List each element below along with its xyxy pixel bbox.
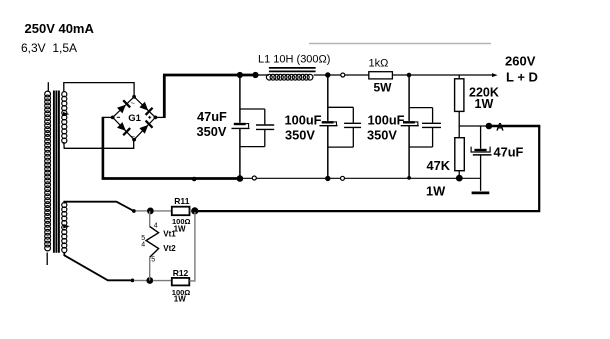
resistor R11 (154, 210, 172, 212)
wire primary top lead (47, 82, 49, 92)
wire bottom bus thick segment (102, 177, 240, 180)
svg-text:100uF: 100uF (368, 113, 405, 128)
stray junction dot (192, 177, 197, 182)
transformer primary winding (45, 91, 51, 251)
svg-text:5W: 5W (374, 81, 393, 95)
wire HV secondary top to bridge AC top (64, 83, 134, 97)
node A (486, 123, 493, 130)
svg-text:L + D: L + D (506, 69, 538, 84)
svg-text:4: 4 (141, 242, 145, 249)
svg-text:~: ~ (131, 132, 136, 141)
wire right vertical of feedback loop (195, 126, 539, 211)
resistor 1k (369, 72, 393, 79)
svg-text:A: A (496, 122, 504, 134)
transformer core (54, 91, 59, 253)
wire heater bottom lead (64, 252, 130, 280)
svg-text:47K: 47K (427, 158, 451, 173)
wire R1 right to output arrow (392, 74, 493, 76)
node heater bottom junction (146, 277, 153, 284)
wire node A horizontal (459, 125, 490, 127)
wire bridge plus riser to top bus (155, 116, 164, 118)
wire primary bottom lead (46, 253, 48, 266)
svg-text:Vt2: Vt2 (163, 244, 176, 253)
wire L1 left stub (257, 74, 270, 76)
wire zigzag top stub (149, 211, 151, 227)
connector circle bottom bus 2 (341, 176, 345, 180)
svg-text:R12: R12 (173, 268, 189, 278)
connector circle bottom bus 1 (252, 176, 256, 180)
node heater bottom connector dot (131, 279, 135, 283)
svg-text:350V: 350V (197, 124, 227, 139)
svg-text:L1 10H (300Ω): L1 10H (300Ω) (258, 54, 330, 66)
node C1 top junction (237, 72, 243, 78)
HV secondary tap arrow (63, 112, 70, 116)
wire L1 right to C2 (314, 74, 341, 76)
node C2 top junction (325, 72, 330, 77)
node R11 right junction (191, 207, 198, 214)
svg-text:5: 5 (151, 257, 155, 264)
inductor L1 core bars (269, 68, 316, 72)
output arrow (492, 73, 498, 77)
wire heater top lead (64, 202, 133, 211)
node 47K bottom junction (456, 175, 463, 182)
svg-text:1W: 1W (426, 184, 446, 199)
wire top B+ bus thick segment (163, 74, 257, 77)
wire bottom bus thin segment (240, 177, 481, 179)
resistor R12 (153, 280, 172, 282)
wire R12 right riser gray (189, 212, 195, 281)
svg-text:47uF: 47uF (197, 109, 227, 124)
svg-text:100uF: 100uF (285, 113, 322, 128)
svg-text:1kΩ: 1kΩ (369, 58, 389, 70)
node heater top junction (147, 208, 154, 215)
wire to R1 (345, 74, 369, 76)
transformer HV secondary winding (62, 92, 67, 144)
svg-text:260V: 260V (505, 54, 536, 69)
capacitor C1 47uF (232, 75, 275, 182)
capacitor C3 100uF (401, 75, 441, 180)
capacitor C4 47uF (471, 126, 491, 191)
capacitor C2 100uF (319, 75, 361, 181)
wire heater bottom gray link (134, 280, 147, 282)
connector circle top bus (341, 73, 345, 77)
svg-text:250V 40mA: 250V 40mA (25, 21, 95, 36)
svg-text:1W: 1W (475, 97, 494, 111)
svg-text:1W: 1W (174, 295, 186, 304)
tube heaters Vt1 Vt2 zigzag (146, 227, 159, 258)
wire zigzag bottom stub (149, 257, 151, 280)
svg-text:6,3V 1,5A: 6,3V 1,5A (21, 41, 77, 55)
svg-text:G1: G1 (128, 113, 141, 124)
wire heater top gray link (136, 210, 149, 212)
svg-text:R11: R11 (174, 196, 189, 206)
heater winding tap arrow (63, 224, 70, 228)
node heater top connector dot (132, 209, 136, 213)
node C3 top junction (407, 73, 412, 78)
resistor 220K (458, 75, 460, 79)
svg-text:350V: 350V (367, 128, 397, 143)
transformer heater winding (62, 202, 67, 252)
svg-text:~: ~ (131, 98, 136, 107)
svg-text:1W: 1W (174, 224, 186, 233)
resistor 47K (458, 126, 460, 138)
ground (472, 192, 490, 195)
svg-text:47uF: 47uF (494, 145, 524, 160)
svg-text:350V: 350V (285, 128, 315, 143)
wire HV secondary bottom to bridge AC bottom (64, 140, 134, 149)
node L1 left terminal (252, 72, 258, 78)
inductor L1 coil (266, 74, 313, 80)
wire bridge minus to bottom bus (103, 116, 113, 118)
svg-text:4: 4 (154, 223, 158, 230)
decorative gray divider line (309, 43, 491, 45)
bridge rectifier G1 (111, 95, 158, 142)
wire node A to right (thick) (489, 125, 540, 128)
